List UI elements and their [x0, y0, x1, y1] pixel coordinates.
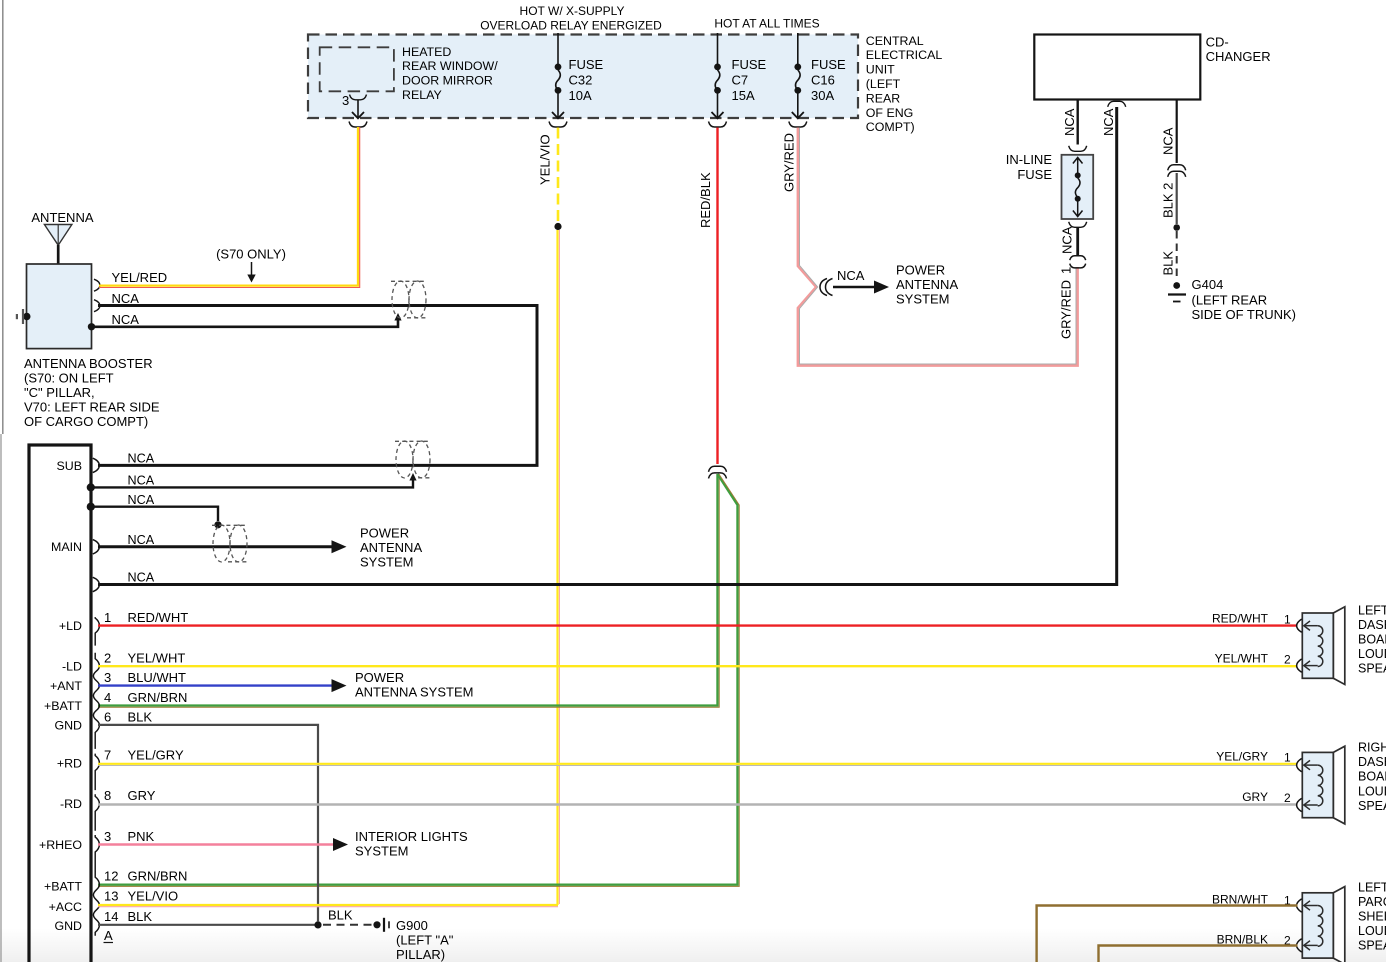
svg-text:C32: C32	[569, 73, 593, 88]
relay pin 3 connector cup	[349, 122, 367, 128]
wire BRN/WHT to speaker 3	[1037, 906, 1298, 962]
wire YEL/RED booster to relay	[99, 127, 360, 288]
svg-text:SYSTEM: SYSTEM	[355, 844, 408, 859]
svg-text:GRN/BRN: GRN/BRN	[128, 690, 188, 705]
label NCA at kink	[837, 268, 865, 283]
svg-text:GND: GND	[54, 919, 82, 933]
svg-text:FUSE: FUSE	[1017, 167, 1052, 182]
svg-text:1: 1	[1059, 267, 1074, 274]
ground G404	[1168, 282, 1186, 301]
wire BLK dashed	[1176, 231, 1178, 277]
svg-text:SYSTEM: SYSTEM	[360, 555, 413, 570]
svg-text:ANTENNA BOOSTER: ANTENNA BOOSTER	[24, 356, 153, 371]
wire PNK pin3b	[98, 838, 348, 851]
wire GRN/BRN branch to pin 12	[98, 474, 739, 886]
radio pin dot 2	[87, 483, 95, 491]
label GRY/RED at fuse C16 drop	[782, 133, 797, 192]
relay pin 3 connector cup at relay	[350, 95, 367, 100]
svg-text:1: 1	[104, 610, 111, 625]
svg-text:GRN/BRN: GRN/BRN	[128, 868, 188, 883]
svg-text:(LEFT: (LEFT	[866, 77, 901, 91]
svg-text:NCA: NCA	[128, 493, 155, 507]
svg-text:YEL/WHT: YEL/WHT	[128, 651, 186, 666]
arrow to power antenna system (top)	[833, 281, 889, 294]
wire YEL/VIO dashed from fuse C32	[557, 128, 560, 223]
wire NCA from CD-changer middle pin to radio	[98, 107, 1117, 585]
svg-text:2: 2	[104, 651, 111, 666]
radio pin 2 -LD	[93, 653, 99, 749]
svg-text:3: 3	[104, 829, 111, 844]
svg-text:DASH-: DASH-	[1358, 618, 1386, 632]
label NCA left pin	[1062, 108, 1077, 136]
svg-text:12: 12	[104, 868, 118, 883]
svg-text:SYSTEM: SYSTEM	[896, 292, 949, 307]
label NCA below in-line fuse	[1060, 226, 1075, 254]
central electrical unit label	[866, 34, 943, 134]
fuse C16	[792, 33, 804, 118]
label YEL/RED at booster	[112, 270, 168, 285]
svg-text:REAR WINDOW/: REAR WINDOW/	[402, 59, 498, 73]
radio pin 14 GND	[54, 919, 82, 933]
svg-text:NCA: NCA	[128, 571, 155, 585]
fuse C7 connector cup	[709, 122, 727, 128]
svg-text:SPEAKER: SPEAKER	[1358, 662, 1386, 676]
connector pair right pin	[1168, 165, 1186, 177]
label power antenna system (pin3)	[355, 670, 473, 700]
svg-text:NCA: NCA	[128, 474, 155, 488]
svg-text:NCA: NCA	[1101, 108, 1116, 136]
svg-text:6: 6	[104, 710, 111, 725]
fuse C16 label	[811, 57, 846, 103]
junction dot pin14/pin6	[314, 921, 321, 928]
label YEL/WHT 2 right	[1215, 652, 1291, 667]
svg-text:GRY: GRY	[1242, 790, 1268, 804]
svg-text:BLK: BLK	[328, 908, 353, 923]
svg-text:OVERLOAD RELAY ENERGIZED: OVERLOAD RELAY ENERGIZED	[480, 19, 662, 33]
svg-text:BOARD: BOARD	[1358, 633, 1386, 647]
in-line fuse box	[1062, 155, 1094, 219]
svg-text:SHELF: SHELF	[1358, 910, 1386, 924]
svg-text:NCA: NCA	[112, 312, 140, 327]
svg-text:LOUD-: LOUD-	[1358, 647, 1386, 661]
CD-changer label	[1206, 35, 1271, 65]
svg-text:3: 3	[104, 670, 111, 685]
svg-text:DOOR MIRROR: DOOR MIRROR	[402, 74, 493, 88]
svg-text:SPEAKER: SPEAKER	[1358, 939, 1386, 953]
svg-text:+BATT: +BATT	[44, 879, 82, 893]
svg-text:INTERIOR LIGHTS: INTERIOR LIGHTS	[355, 829, 468, 844]
svg-text:1: 1	[1284, 612, 1291, 626]
label NCA wire 2	[128, 474, 155, 488]
wire RED/WHT pin1 to left dash speaker	[98, 624, 1298, 626]
label NCA booster 2	[112, 312, 140, 327]
svg-text:GRY: GRY	[128, 788, 156, 803]
svg-text:14: 14	[104, 909, 118, 924]
svg-text:YEL/VIO: YEL/VIO	[538, 134, 553, 185]
shield symbol on MAIN wire	[212, 525, 249, 562]
svg-text:NCA: NCA	[128, 533, 155, 547]
label BLK dashed	[1161, 251, 1176, 276]
svg-text:CHANGER: CHANGER	[1206, 49, 1271, 64]
page edge line left	[1, 0, 3, 962]
CD-changer left pin wire	[1076, 101, 1078, 145]
relay pin 3 arrow	[352, 100, 364, 118]
wire NCA radio to main shield	[93, 507, 222, 529]
arrow S70 only	[247, 262, 255, 283]
fuse C32 label	[569, 57, 604, 103]
svg-text:15A: 15A	[732, 88, 755, 103]
wire BLK solid	[1176, 173, 1178, 224]
svg-text:HEATED: HEATED	[402, 45, 451, 59]
radio pin 8 -RD	[95, 794, 99, 831]
svg-text:7: 7	[104, 748, 111, 763]
svg-text:SIDE OF TRUNK): SIDE OF TRUNK)	[1192, 307, 1297, 322]
svg-text:REAR: REAR	[866, 91, 900, 105]
fuse C7	[712, 33, 724, 118]
label speaker 1	[1358, 603, 1386, 675]
svg-text:CD-: CD-	[1206, 35, 1229, 50]
label MAIN	[51, 540, 82, 554]
booster ground symbol	[17, 309, 31, 324]
label speaker 3	[1358, 880, 1386, 952]
svg-text:(LEFT "A": (LEFT "A"	[396, 933, 454, 948]
relay label	[402, 45, 498, 102]
wire YEL/GRY pin7	[98, 764, 1298, 766]
svg-text:POWER: POWER	[896, 263, 945, 278]
junction dot G900	[373, 921, 380, 928]
svg-text:ANTENNA: ANTENNA	[31, 210, 93, 225]
speaker 3 left parcel shelf	[1297, 887, 1345, 962]
radio unit box	[29, 445, 91, 962]
wire BLK dashed to G900	[323, 924, 372, 926]
wire GRY pin8	[98, 803, 1298, 805]
svg-text:C16: C16	[811, 73, 835, 88]
svg-text:G900: G900	[396, 918, 428, 933]
svg-text:NCA: NCA	[128, 452, 155, 466]
svg-text:PARCEL: PARCEL	[1358, 895, 1386, 909]
wire NCA main	[98, 540, 347, 553]
svg-text:ELECTRICAL: ELECTRICAL	[866, 48, 943, 62]
fuse C32 connector cup	[549, 122, 567, 128]
radio pin 6 GND	[54, 719, 82, 733]
svg-text:DASH-: DASH-	[1358, 755, 1386, 769]
svg-text:13: 13	[104, 889, 118, 904]
svg-text:C7: C7	[732, 73, 749, 88]
svg-text:3: 3	[342, 93, 349, 108]
connector A label	[104, 928, 114, 943]
svg-text:IN-LINE: IN-LINE	[1006, 152, 1053, 167]
radio pin SUB connector	[93, 458, 100, 472]
label GRY/RED vertical	[1059, 280, 1074, 339]
label RED/BLK	[698, 172, 713, 228]
label NCA main wire	[128, 533, 155, 547]
svg-text:SPEAKER: SPEAKER	[1358, 799, 1386, 813]
radio pin 7 +RD	[95, 754, 99, 791]
svg-text:NCA: NCA	[1062, 108, 1077, 136]
label NCA booster 1	[112, 291, 140, 306]
label NCA right pin	[1161, 127, 1176, 155]
antenna symbol	[44, 225, 72, 265]
radio pin dot 3	[87, 503, 95, 511]
radio pin 13 +ACC	[49, 900, 82, 914]
svg-text:FUSE: FUSE	[732, 57, 767, 72]
connector arcs at GRY/RED kink	[820, 279, 833, 296]
svg-text:RED/WHT: RED/WHT	[1212, 611, 1269, 625]
svg-text:BLK: BLK	[128, 710, 153, 725]
svg-text:FUSE: FUSE	[569, 57, 604, 72]
label YEL/VIO	[538, 134, 553, 185]
svg-text:2: 2	[1284, 653, 1291, 667]
wire YEL/VIO pin13 horizontal	[98, 905, 558, 907]
header HOT W/ X-SUPPLY	[480, 4, 662, 33]
svg-text:A: A	[104, 928, 113, 943]
label NCA sub wire	[128, 452, 155, 466]
label SUB	[57, 459, 82, 473]
label power antenna system (main)	[360, 526, 422, 570]
relay pin 3 label	[342, 93, 349, 108]
wire NCA booster loop to radio SUB	[98, 306, 537, 466]
label YEL/GRY 1 right	[1216, 750, 1291, 765]
wire NCA radio shield drain	[93, 473, 417, 487]
svg-text:RED/WHT: RED/WHT	[128, 610, 189, 625]
radio pin 3b +RHEO	[95, 835, 99, 872]
label RED/WHT 1 right	[1212, 611, 1291, 626]
svg-text:(LEFT REAR: (LEFT REAR	[1192, 293, 1268, 308]
svg-text:YEL/WHT: YEL/WHT	[1215, 652, 1269, 666]
in-line fuse element	[1073, 158, 1083, 217]
shield symbol on booster NCA wire	[391, 281, 428, 318]
wire NCA booster shield drain	[93, 313, 402, 327]
wire BLU/WHT pin3	[98, 679, 347, 692]
label G900	[396, 918, 454, 962]
label interior lights system	[355, 829, 468, 859]
svg-text:RELAY: RELAY	[402, 88, 442, 102]
wire YEL/WHT pin2	[98, 665, 1298, 667]
svg-text:MAIN: MAIN	[51, 540, 82, 554]
speaker 2 right dashboard	[1297, 746, 1345, 824]
label speaker 2	[1358, 741, 1386, 813]
radio pin 3 +ANT	[50, 679, 82, 693]
svg-text:POWER: POWER	[360, 526, 409, 541]
svg-text:LOUD-: LOUD-	[1358, 924, 1386, 938]
svg-text:ANTENNA: ANTENNA	[896, 277, 958, 292]
svg-text:SUB: SUB	[57, 459, 82, 473]
wire GRN/BRN branch to pin 4	[98, 474, 719, 707]
label NCA wire 5	[128, 571, 155, 585]
svg-text:BLK 2: BLK 2	[1161, 183, 1176, 218]
svg-text:G404: G404	[1192, 277, 1224, 292]
svg-text:BLK: BLK	[1161, 251, 1176, 276]
svg-text:NCA: NCA	[1060, 226, 1075, 254]
svg-text:V70: LEFT REAR SIDE: V70: LEFT REAR SIDE	[24, 400, 160, 415]
svg-text:YEL/GRY: YEL/GRY	[1216, 750, 1268, 764]
svg-text:4: 4	[104, 690, 111, 705]
label ANTENNA	[31, 210, 93, 225]
label power antenna system (top)	[896, 263, 958, 307]
CD-changer middle pin connector frown	[1108, 101, 1126, 107]
radio pin 12 +BATT	[93, 871, 99, 936]
wire GRY/RED from fuse C16	[798, 128, 1078, 366]
svg-text:BLK: BLK	[128, 909, 153, 924]
label 1 at connector	[1059, 267, 1074, 274]
fuse C7 label	[732, 57, 767, 103]
label BRN/BLK 2 right	[1217, 933, 1291, 948]
svg-text:-LD: -LD	[62, 660, 82, 674]
ground G900 symbol	[384, 918, 389, 932]
svg-text:-RD: -RD	[60, 797, 82, 811]
svg-text:NCA: NCA	[112, 291, 140, 306]
svg-text:8: 8	[104, 788, 111, 803]
wire BRN/BLK to speaker 3	[1099, 946, 1298, 962]
svg-text:PILLAR): PILLAR)	[396, 947, 445, 962]
svg-text:UNIT: UNIT	[866, 63, 895, 77]
svg-text:+ACC: +ACC	[49, 900, 82, 914]
svg-text:BOARD: BOARD	[1358, 770, 1386, 784]
svg-text:OF CARGO COMPT): OF CARGO COMPT)	[24, 414, 148, 429]
label GRY 2 right	[1242, 790, 1291, 805]
svg-text:(S70 ONLY): (S70 ONLY)	[216, 247, 286, 262]
svg-text:RIGHT: RIGHT	[1358, 741, 1386, 755]
svg-text:GRY/RED: GRY/RED	[1059, 280, 1074, 339]
booster pin YEL/RED connector	[94, 279, 100, 291]
svg-text:ANTENNA SYSTEM: ANTENNA SYSTEM	[355, 685, 473, 700]
wire BLK pin6	[98, 725, 318, 921]
svg-text:YEL/VIO: YEL/VIO	[128, 889, 179, 904]
radio pin 1 +LD	[95, 617, 99, 646]
CD-changer box	[1034, 35, 1200, 100]
speaker 1 left dashboard	[1297, 607, 1345, 685]
booster pin dot	[88, 323, 95, 330]
svg-text:OF ENG: OF ENG	[866, 106, 914, 120]
junction dot BLK	[1173, 224, 1180, 231]
shield symbol on SUB wire	[395, 441, 432, 478]
svg-text:HOT AT ALL TIMES: HOT AT ALL TIMES	[714, 17, 819, 31]
junction dot on YEL/VIO	[554, 223, 561, 230]
radio pin 4 +BATT	[44, 699, 82, 713]
svg-text:NCA: NCA	[1161, 127, 1176, 155]
label BRN/WHT 1 right	[1212, 893, 1291, 908]
connector smile below in-line fuse	[1069, 222, 1087, 228]
svg-text:10A: 10A	[569, 88, 592, 103]
wire YEL/VIO solid vertical to pin 13	[558, 230, 560, 905]
svg-text:+RD: +RD	[57, 757, 82, 771]
svg-text:PNK: PNK	[128, 829, 155, 844]
fuse C16 connector cup	[789, 122, 807, 128]
radio pin NCA5 connector	[93, 577, 100, 591]
svg-text:NCA: NCA	[837, 268, 865, 283]
label antenna booster	[24, 356, 160, 429]
wire NCA below in-line fuse	[1076, 228, 1079, 255]
svg-text:+LD: +LD	[59, 619, 82, 633]
fuse C32	[552, 33, 564, 118]
svg-text:LOUD-: LOUD-	[1358, 784, 1386, 798]
svg-text:2: 2	[1284, 791, 1291, 805]
label NCA wire 3	[128, 493, 155, 507]
svg-text:YEL/GRY: YEL/GRY	[128, 748, 184, 763]
svg-text:GND: GND	[54, 719, 82, 733]
svg-text:+RHEO: +RHEO	[39, 838, 82, 852]
svg-text:YEL/RED: YEL/RED	[112, 270, 168, 285]
label BLK splice	[328, 908, 353, 923]
svg-text:"C" PILLAR,: "C" PILLAR,	[24, 385, 95, 400]
svg-text:1: 1	[1284, 751, 1291, 765]
antenna booster box	[27, 264, 92, 349]
label NCA middle pin	[1101, 108, 1116, 136]
svg-text:POWER: POWER	[355, 670, 404, 685]
wire BLK pin14	[98, 924, 315, 926]
svg-text:LEFT: LEFT	[1358, 880, 1386, 894]
svg-text:CENTRAL: CENTRAL	[866, 34, 924, 48]
in-line fuse label	[1006, 152, 1053, 182]
label BLK 2	[1161, 183, 1176, 218]
svg-text:FUSE: FUSE	[811, 57, 846, 72]
svg-text:COMPT): COMPT)	[866, 120, 915, 134]
connector pair below NCA wire	[1070, 256, 1086, 268]
svg-text:HOT W/ X-SUPPLY: HOT W/ X-SUPPLY	[520, 4, 625, 18]
svg-text:RED/BLK: RED/BLK	[698, 172, 713, 228]
svg-text:(S70: ON LEFT: (S70: ON LEFT	[24, 371, 114, 386]
label G404	[1192, 277, 1297, 322]
svg-text:BLU/WHT: BLU/WHT	[128, 670, 187, 685]
header HOT AT ALL TIMES	[714, 17, 819, 31]
radio pin MAIN connector	[93, 540, 100, 554]
svg-text:+BATT: +BATT	[44, 699, 82, 713]
svg-text:LEFT: LEFT	[1358, 603, 1386, 617]
svg-text:30A: 30A	[811, 88, 834, 103]
inline connector on RED/BLK to GRN wire (two frowns)	[709, 466, 727, 478]
connector smile above in-line fuse	[1069, 146, 1087, 152]
svg-text:+ANT: +ANT	[50, 679, 82, 693]
wire RED/BLK from fuse C7	[716, 128, 718, 465]
label (S70 ONLY)	[216, 247, 286, 262]
svg-text:GRY/RED: GRY/RED	[782, 133, 797, 192]
relay K: heated rear window/door mirror relay (inner dashed box)	[320, 47, 394, 91]
CD-changer right pin wire	[1176, 101, 1178, 164]
booster pin NCA connector	[94, 300, 100, 312]
svg-text:ANTENNA: ANTENNA	[360, 540, 422, 555]
central electrical unit box	[308, 35, 858, 119]
